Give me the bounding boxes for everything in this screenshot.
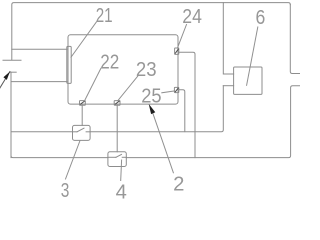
wire left bus to switch 4 — [11, 156, 108, 158]
svg-text:25: 25 — [141, 86, 161, 108]
svg-text:23: 23 — [136, 59, 157, 81]
svg-text:21: 21 — [96, 5, 113, 27]
svg-text:4: 4 — [116, 182, 127, 200]
wire right frame upper segment — [290, 5, 300, 74]
arrowhead of label 2 pointer — [149, 104, 156, 114]
switch 3 blade — [77, 128, 84, 132]
svg-text:6: 6 — [256, 7, 266, 29]
wire middle rail right of switch 3 — [90, 86, 223, 132]
leader line label 22 — [85, 68, 101, 100]
terminal 23 — [114, 101, 120, 106]
svg-text:3: 3 — [61, 180, 70, 200]
leader line label 3 — [66, 141, 81, 179]
leader line label 2 — [153, 113, 174, 172]
control unit box 2 — [68, 35, 178, 104]
leader line label 23 — [118, 76, 138, 101]
wire terminal 25 to bottom rail — [179, 90, 185, 132]
wire terminal 24 to right net — [179, 52, 195, 157]
wire top frame to module 6 upper pin — [223, 3, 233, 74]
svg-text:22: 22 — [100, 51, 119, 73]
wire battery positive to block 21 — [12, 48, 67, 50]
terminal 23 contact tick — [115, 101, 119, 104]
wire right frame lower segment — [126, 86, 300, 158]
wire terminal 23 to switch 4 — [116, 105, 118, 152]
switch box 4 — [108, 152, 126, 167]
leader line label 25 — [162, 91, 175, 93]
wire middle rail left of switch 3 — [11, 131, 73, 133]
terminal 25 contact tick — [175, 88, 178, 92]
terminal 22 contact tick — [81, 101, 85, 104]
svg-text:2: 2 — [173, 174, 184, 196]
terminal 24 — [175, 48, 179, 54]
wire bottom rail to module 6 lower pin — [223, 85, 233, 87]
switch 4 right contact stub — [122, 156, 126, 158]
terminal 24 contact tick — [175, 49, 178, 53]
wire terminal 22 to switch 3 — [81, 105, 83, 125]
switch 3 right contact stub — [86, 131, 90, 133]
svg-text:24: 24 — [182, 6, 202, 28]
switch 4 blade — [116, 154, 122, 157]
rectifier block 21 — [67, 46, 71, 83]
battery B1 long plate — [3, 59, 21, 61]
switch 4 left contact stub — [108, 156, 116, 158]
leader line label 21 — [71, 22, 96, 57]
leader line label 6 — [247, 27, 258, 85]
wire left vertical bus below battery — [10, 72, 12, 157]
arrow pointer to battery terminal — [0, 72, 10, 91]
switch box 3 — [73, 125, 91, 140]
leader line label 4 — [120, 160, 123, 181]
switch 3 left contact stub — [73, 131, 78, 133]
wire top frame rail with left supply drop — [12, 3, 291, 60]
terminal 25 — [174, 87, 178, 92]
terminal 22 — [80, 101, 86, 106]
leader line label 24 — [178, 25, 187, 48]
wire battery negative to block 21 — [11, 81, 67, 83]
arrowhead of battery pointer — [3, 72, 9, 80]
module box 6 — [234, 67, 262, 94]
battery B1 short plate — [10, 71, 16, 73]
